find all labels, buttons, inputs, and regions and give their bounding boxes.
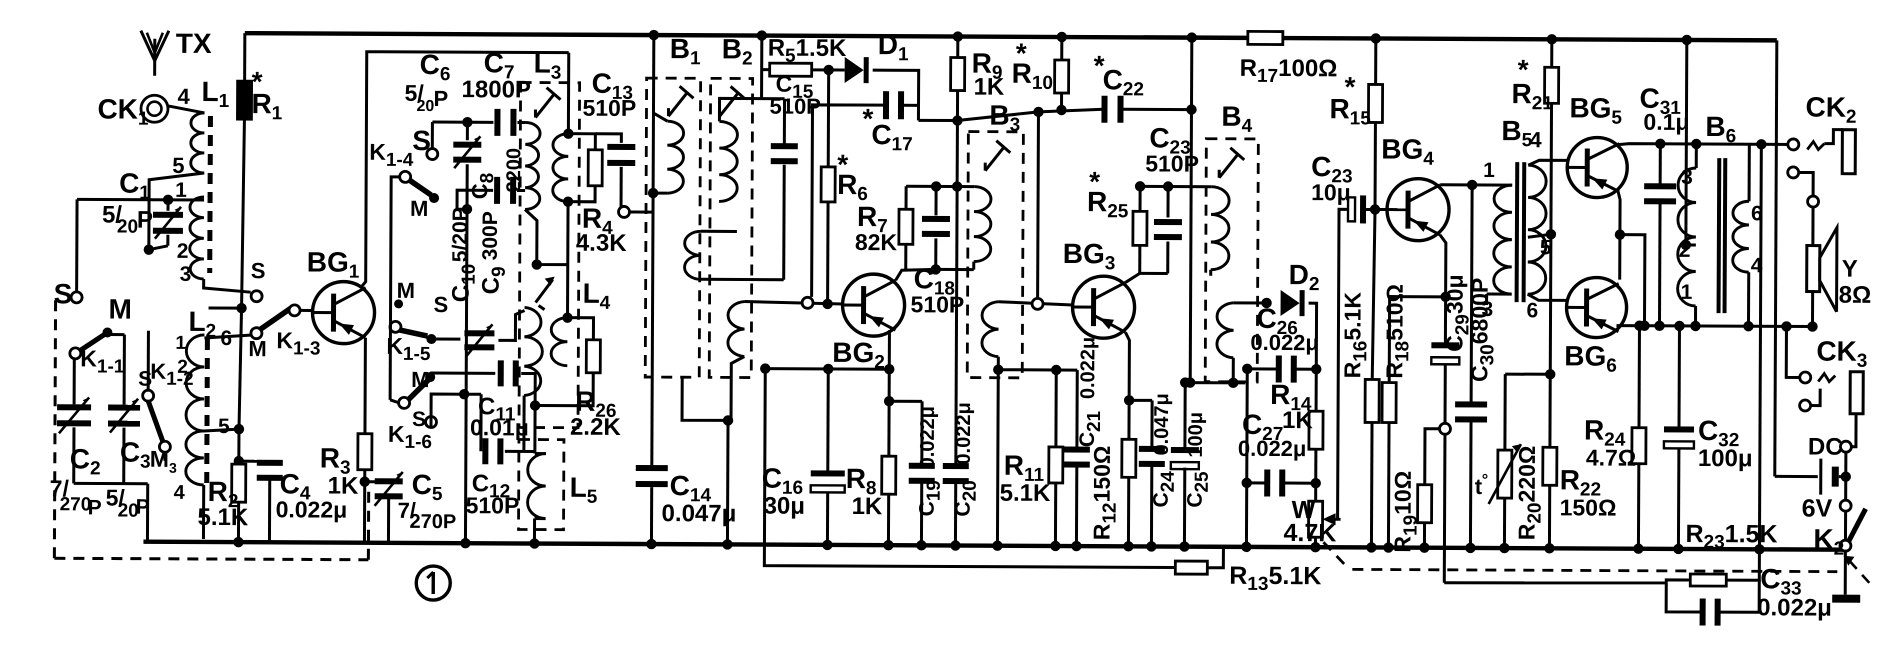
resistor R18 510ohm — [1388, 297, 1391, 383]
wire node to R1 line — [209, 306, 242, 309]
coil L4 primary — [524, 307, 542, 395]
svg-text:510P: 510P — [582, 95, 636, 121]
svg-text:TX: TX — [176, 28, 212, 59]
svg-text:2: 2 — [177, 240, 189, 263]
wire B4 link top to D2 — [1234, 301, 1267, 304]
svg-text:P: P — [433, 86, 448, 111]
svg-text:1K: 1K — [852, 493, 883, 520]
B6 secondary — [1733, 201, 1749, 272]
coil L5 — [528, 453, 546, 518]
B3 slug — [985, 147, 1004, 171]
IF transformer B4 box — [1205, 139, 1258, 382]
capacitor C32 100u electrolytic — [1678, 326, 1681, 428]
B2 link winding — [728, 301, 745, 356]
capacitor C9 300P — [430, 372, 495, 375]
svg-text:4: 4 — [177, 84, 190, 109]
svg-text:100μ: 100μ — [1698, 445, 1753, 472]
svg-text:1: 1 — [1483, 159, 1495, 182]
resistor R9 1K — [953, 31, 963, 41]
wire C2 C3 bottoms to rail — [74, 482, 148, 485]
output node to line — [1619, 235, 1644, 326]
capacitor C17 — [883, 91, 889, 119]
wire osc top to L3 right — [567, 53, 570, 134]
svg-text:S: S — [412, 125, 431, 156]
svg-text:6: 6 — [1526, 299, 1538, 322]
contact S of K1-1 — [71, 292, 82, 303]
wire R1 to R2 — [239, 308, 242, 429]
open node on BG2 base — [802, 297, 813, 308]
transistor BG6 — [1566, 277, 1626, 337]
bottom ground rail — [143, 542, 1845, 550]
wire BG1 collector to oscillator — [361, 52, 569, 289]
switch K1-6 lever — [408, 380, 428, 400]
resistor R7 82K — [904, 244, 907, 269]
output transformer B6 primary — [1678, 168, 1697, 306]
svg-text:Y: Y — [1842, 256, 1858, 283]
open node R19 — [1439, 423, 1450, 434]
capacitor C3 variable 5/20P — [108, 405, 140, 411]
switch K1-4 lever — [409, 180, 431, 195]
B2 slug — [719, 92, 738, 116]
capacitor C1 variable 5/20P — [167, 200, 170, 211]
wire K1-6 S to C12 — [431, 394, 464, 428]
svg-text:4.3K: 4.3K — [576, 230, 627, 257]
capacitor C4 0.022u — [239, 460, 270, 463]
contact S of K1-2 — [147, 331, 150, 390]
capacitor C13 510P — [595, 134, 621, 143]
capacitor C6 variable 5/20P — [466, 122, 469, 140]
wire BG5 emitter BG6 collector — [1618, 192, 1620, 280]
B1 link winding — [684, 231, 700, 279]
coil L2 lower — [186, 431, 204, 485]
wire L2 pin4 to rail — [202, 485, 205, 539]
wire L4 primary bottom — [522, 395, 525, 451]
svg-text:0.022μ: 0.022μ — [276, 496, 348, 522]
line B4 bottom — [1185, 381, 1245, 384]
transistor BG2 — [842, 274, 904, 336]
antenna TX — [153, 39, 156, 76]
wire wiper to C23 10u — [1338, 209, 1348, 518]
resistor R26 2.2K — [567, 318, 593, 340]
B4 link winding — [1217, 303, 1234, 358]
capacitor C27 0.022u — [1264, 469, 1270, 496]
wire K1-1 to C2 — [73, 358, 76, 404]
wire output line to CK3 — [1786, 326, 1800, 377]
switch K1-2 lever — [148, 401, 163, 442]
emitter line left — [765, 367, 889, 371]
capacitor C29 30u electrolytic — [1444, 297, 1447, 344]
resistor R25 — [1138, 245, 1141, 273]
switch K2 — [1840, 500, 1851, 511]
contact M3 — [159, 441, 170, 452]
transistor BG3 — [1072, 276, 1134, 338]
jack CK1 — [141, 95, 168, 122]
svg-text:0.022μ: 0.022μ — [1077, 337, 1099, 399]
wire C7 net — [432, 121, 493, 124]
open node under C13 — [618, 206, 629, 217]
wire B2 link top to BG2 base — [745, 302, 843, 304]
svg-text:0.022μ: 0.022μ — [1250, 330, 1319, 355]
ground line from C6/C8 — [465, 209, 467, 543]
wire to L5 — [533, 406, 536, 454]
open node AGC — [1032, 298, 1043, 309]
transistor BG1 — [312, 281, 374, 343]
transistor BG4 — [1387, 179, 1449, 241]
svg-text:M: M — [108, 294, 131, 325]
line L2 pin5 area — [123, 335, 126, 405]
wire B5 pin5 tap — [1528, 234, 1551, 237]
svg-text:510P: 510P — [466, 492, 520, 518]
wire left edge down to S contact — [75, 199, 78, 291]
wire L2 pin6 to K1-3 M contact — [204, 335, 250, 338]
resistor R10 — [1057, 32, 1067, 42]
capacitor C12 510P — [482, 438, 488, 464]
wire B3 link top to BG3 base — [999, 302, 1073, 305]
resistor R8 1K — [888, 369, 891, 401]
volume potentiometer W 4.7K — [1308, 501, 1322, 537]
svg-text:M: M — [410, 196, 428, 221]
driver transformer B5 primary — [1494, 185, 1513, 294]
svg-text:S: S — [251, 258, 266, 283]
gang symbol circled 1 — [416, 566, 450, 600]
capacitor C25 100u — [1183, 383, 1186, 450]
wire K1-3 to BG1 base — [300, 309, 312, 312]
coil L4 secondary — [551, 318, 567, 366]
svg-text:30μ: 30μ — [764, 493, 806, 520]
resistor R12 150ohm — [1122, 439, 1136, 477]
wire B6 secondary bottom — [1747, 272, 1750, 326]
wire L1 pin5 to K1-2 line — [149, 173, 204, 248]
svg-text:5.1K: 5.1K — [198, 504, 249, 531]
wire AF line down — [1245, 369, 1249, 483]
B1 slug — [668, 92, 687, 116]
capacitor C20 0.022u — [956, 121, 958, 465]
switch K1-5 lever — [399, 330, 427, 336]
svg-text:4.7Ω: 4.7Ω — [1586, 444, 1637, 470]
wire B2 link bottom — [731, 356, 744, 420]
coil L3 secondary — [553, 134, 569, 202]
B4 primary winding — [1211, 187, 1229, 270]
svg-text:4: 4 — [1529, 127, 1542, 152]
svg-text:270P: 270P — [409, 511, 456, 533]
svg-text:1: 1 — [1681, 281, 1693, 304]
contact S of K1-6 — [425, 417, 436, 428]
wire B6 pin3 to collector line — [1695, 144, 1698, 168]
wire to B4 primary top — [1140, 185, 1211, 188]
resistor R14 1K — [1315, 369, 1318, 411]
detector line to AGC — [918, 111, 1038, 121]
capacitor C18 510P — [931, 264, 941, 274]
capacitor C7 1800P — [494, 109, 500, 136]
wire B5 pin6 to BG6 base — [1528, 294, 1568, 300]
wiper arrow of W — [1334, 518, 1341, 521]
capacitor C33 0.022u — [1666, 583, 1701, 612]
wire L1 pin3 to S contact of K1-3 — [204, 279, 251, 292]
line rail to B4 area — [1190, 38, 1192, 383]
wire BG2 collector — [896, 269, 936, 280]
B6 core — [1717, 158, 1722, 313]
B3 link winding — [982, 302, 999, 357]
transistor BG5 — [1567, 137, 1627, 197]
svg-text:0.022μ: 0.022μ — [1757, 594, 1832, 621]
svg-text:1: 1 — [175, 333, 186, 354]
wire to R13 line — [764, 369, 1176, 568]
resistor R2 5.1K — [237, 461, 240, 464]
wire S K1-4 up to C7 line — [431, 122, 434, 148]
resistor R11 5.1K — [1054, 370, 1057, 447]
L5 bottom to rail — [535, 517, 546, 520]
bias line down — [1549, 234, 1553, 374]
resistor R17 100ohm in rail — [1248, 31, 1283, 44]
wire B1 box bottom to rail — [682, 377, 728, 420]
wire BG4 collector to B5 — [1440, 183, 1512, 186]
svg-text:6V: 6V — [1802, 494, 1833, 522]
wire BG3 emitter — [1125, 332, 1129, 400]
right supply drop — [1775, 40, 1777, 476]
B1 primary winding — [667, 121, 684, 193]
capacitor C31 0.1u — [1659, 144, 1662, 185]
wire L2 pin5 to node — [204, 429, 239, 431]
wire base node — [1375, 208, 1387, 211]
svg-text:4.7K: 4.7K — [1283, 519, 1336, 547]
B5 secondary — [1528, 165, 1547, 294]
resistor R5 1.5K — [770, 63, 812, 76]
svg-text:M: M — [411, 367, 429, 392]
capacitor C26 0.022u — [1276, 356, 1282, 383]
resistor R4 4.3K — [568, 134, 595, 150]
resistor R19 10ohm — [1425, 429, 1440, 485]
svg-text:150Ω: 150Ω — [1560, 494, 1617, 520]
wire D2 to C26 node — [1308, 303, 1316, 369]
K2 to chassis — [1844, 550, 1847, 595]
svg-text:20: 20 — [416, 98, 434, 115]
resistor R1 — [243, 33, 246, 81]
wire BG1 emitter to R3 — [363, 338, 366, 434]
wire B2 primary top — [719, 98, 761, 121]
node C1 top — [163, 195, 173, 205]
svg-text:3: 3 — [180, 263, 192, 286]
capacitor C23 10u electrolytic — [1348, 197, 1355, 221]
svg-text:5: 5 — [218, 415, 230, 438]
thermistor R20 220ohm — [1505, 373, 1550, 376]
wire B5 pin3 — [1487, 293, 1512, 296]
capacitor C23 510P — [1140, 272, 1168, 275]
resistor R15 — [1371, 33, 1381, 43]
wire BG5 collector line — [1618, 144, 1793, 146]
resistor R21 — [1547, 34, 1557, 44]
resistor R13 5.1K in return line — [1175, 561, 1207, 574]
L2 ferrite core dashed — [204, 339, 210, 488]
B5 core — [1515, 162, 1520, 302]
inductor L1 winding 1-2-3 — [190, 197, 204, 259]
network R23 C33 — [1666, 580, 1690, 583]
capacitor C8 2200P — [494, 177, 500, 204]
coil L3 primary — [525, 122, 540, 209]
contact K1-5 pivot — [390, 321, 401, 332]
wire rail to R5 — [757, 30, 767, 40]
wire L3 secondary to L4 — [566, 202, 570, 318]
ganged arrow — [1849, 561, 1869, 583]
wire R7 C18 top to B3 — [906, 185, 974, 188]
shield can L3 L4 dashed — [519, 82, 580, 427]
coil L2 secondary — [186, 335, 204, 431]
feedback line to C33 — [1444, 582, 1666, 584]
IF transformer B2 box — [709, 78, 752, 377]
wire BG4 emitter — [1440, 235, 1446, 297]
wire BG2 emitter — [888, 330, 891, 369]
svg-text:8Ω: 8Ω — [1839, 282, 1872, 309]
svg-text:P: P — [137, 207, 153, 234]
wire BG2 collector to B3 primary bottom — [936, 268, 974, 271]
wire B6 pin1 down — [1694, 306, 1697, 326]
svg-text:10μ: 10μ — [1311, 179, 1351, 205]
wire speaker bottom — [1811, 292, 1814, 327]
wire CK3 contacts — [1810, 389, 1820, 406]
IF transformer B1 box — [645, 78, 700, 377]
wire B6 secondary top — [1748, 144, 1751, 201]
capacitor C10 variable 5/20P — [431, 338, 460, 341]
contact M of K1-3 — [251, 328, 262, 339]
diode D2 — [1281, 290, 1300, 316]
capacitor C19 0.022u — [889, 400, 922, 403]
svg-text:4: 4 — [174, 482, 186, 504]
B3 primary winding — [974, 187, 991, 262]
dashed gang link W to K2 — [1323, 542, 1348, 568]
svg-text:20: 20 — [117, 217, 138, 238]
contact S of K1-5 — [426, 334, 436, 344]
svg-text:S: S — [412, 408, 426, 431]
wire B1 link top — [701, 230, 737, 233]
wire D1 cathode down — [872, 70, 918, 120]
shield can L5 dashed — [519, 439, 564, 529]
capacitor C15 510P — [762, 97, 785, 100]
svg-text:1K: 1K — [328, 473, 359, 500]
wire B3 link bottom to rail — [996, 357, 1000, 546]
resistor R22 150ohm — [1543, 447, 1557, 485]
switch K1-4 pole line — [390, 177, 405, 322]
wire CK2 to speaker — [1798, 172, 1813, 196]
svg-text:6: 6 — [220, 327, 232, 350]
wire B4 link bottom — [1232, 358, 1235, 383]
svg-text:M: M — [248, 336, 266, 361]
svg-text:300P: 300P — [479, 211, 502, 260]
pole line K1-5 to K1-6 — [389, 322, 392, 400]
coil L3 slug arrow — [535, 94, 554, 118]
capacitor C5 variable 7/270P — [360, 476, 370, 486]
svg-text:0.1μ: 0.1μ — [1643, 109, 1689, 135]
AVC filter line — [998, 368, 1077, 371]
resistor R6 — [827, 70, 830, 167]
contact S of K1-4 — [427, 149, 438, 160]
svg-text:0.022μ: 0.022μ — [953, 402, 975, 464]
svg-text:0.047μ: 0.047μ — [1151, 393, 1173, 455]
capacitor C16 30u — [826, 369, 829, 471]
svg-text:P: P — [88, 496, 102, 519]
contact K1-6 pivot — [399, 397, 410, 408]
capacitor C14 0.047u — [636, 465, 668, 471]
top supply rail — [245, 33, 1248, 38]
wire BG3 collector — [1126, 273, 1140, 282]
wire CK1 to L1 pin 4 — [167, 106, 204, 113]
svg-text:1K: 1K — [974, 74, 1005, 101]
capacitor C30 6800P — [1471, 185, 1472, 403]
svg-text:0.022μ: 0.022μ — [1238, 436, 1307, 461]
contact K1-4 pivot — [400, 171, 411, 182]
svg-text:4: 4 — [1751, 254, 1763, 277]
resistor R3 1K — [358, 434, 372, 470]
switch K1-1 — [102, 327, 112, 337]
svg-text:82K: 82K — [855, 229, 898, 255]
svg-text:5/20P: 5/20P — [449, 207, 472, 262]
output bottom line BG6 emitter — [1616, 324, 1812, 328]
svg-text:5.1K: 5.1K — [1000, 480, 1051, 507]
diode D1 — [823, 65, 833, 75]
wire B5 pin4 to BG5 base — [1528, 160, 1568, 165]
svg-text:2200: 2200 — [503, 148, 525, 193]
B4 slug — [1219, 154, 1238, 178]
B2 primary winding — [719, 121, 737, 201]
svg-text:DC: DC — [1808, 434, 1843, 461]
wire B1 primary bottom — [653, 192, 667, 195]
L1 ferrite core — [207, 116, 213, 273]
svg-text:°: ° — [1482, 472, 1488, 489]
capacitor C24 0.047u — [1129, 399, 1152, 402]
svg-text:6: 6 — [1751, 202, 1763, 225]
line rail to C14 — [649, 30, 659, 40]
svg-text:0.022μ: 0.022μ — [917, 406, 939, 468]
wire B1 link bottom to C15 line — [701, 278, 784, 281]
wire L1 pin1 C1 line — [77, 198, 204, 202]
svg-text:S: S — [434, 292, 449, 317]
wire L3 bottom jog to L4 line — [525, 209, 568, 264]
svg-text:M: M — [397, 278, 415, 303]
svg-text:100μ: 100μ — [1185, 412, 1207, 458]
wire B6 pin2 to rail — [1682, 35, 1692, 45]
L4 slug arrow — [536, 280, 553, 303]
capacitor C22 — [1101, 96, 1107, 123]
svg-text:2: 2 — [177, 357, 188, 378]
dashed gang frame left — [54, 300, 55, 558]
inductor L1 winding 4-5 — [191, 113, 205, 173]
svg-text:P: P — [136, 496, 150, 519]
capacitor C21 0.022u — [1075, 370, 1078, 449]
IF transformer B3 box — [967, 132, 1023, 378]
resistor R16 5.1K — [1372, 209, 1375, 379]
svg-text:1K: 1K — [1282, 407, 1313, 434]
contact S left of BG1 — [251, 291, 262, 302]
svg-text:0.047μ: 0.047μ — [662, 500, 737, 527]
speaker Y 8ohm — [1807, 246, 1820, 292]
wire AGC down to B3 out — [1036, 112, 1040, 299]
wire down to rail from collector line — [1759, 144, 1761, 549]
wire M row K1-1 — [107, 333, 124, 336]
AGC line through C22 — [1038, 109, 1103, 112]
resistor R24 4.7ohm — [1638, 326, 1641, 428]
switch K1-3 lever — [260, 308, 290, 329]
capacitor C2 variable 7/270P — [57, 404, 91, 410]
